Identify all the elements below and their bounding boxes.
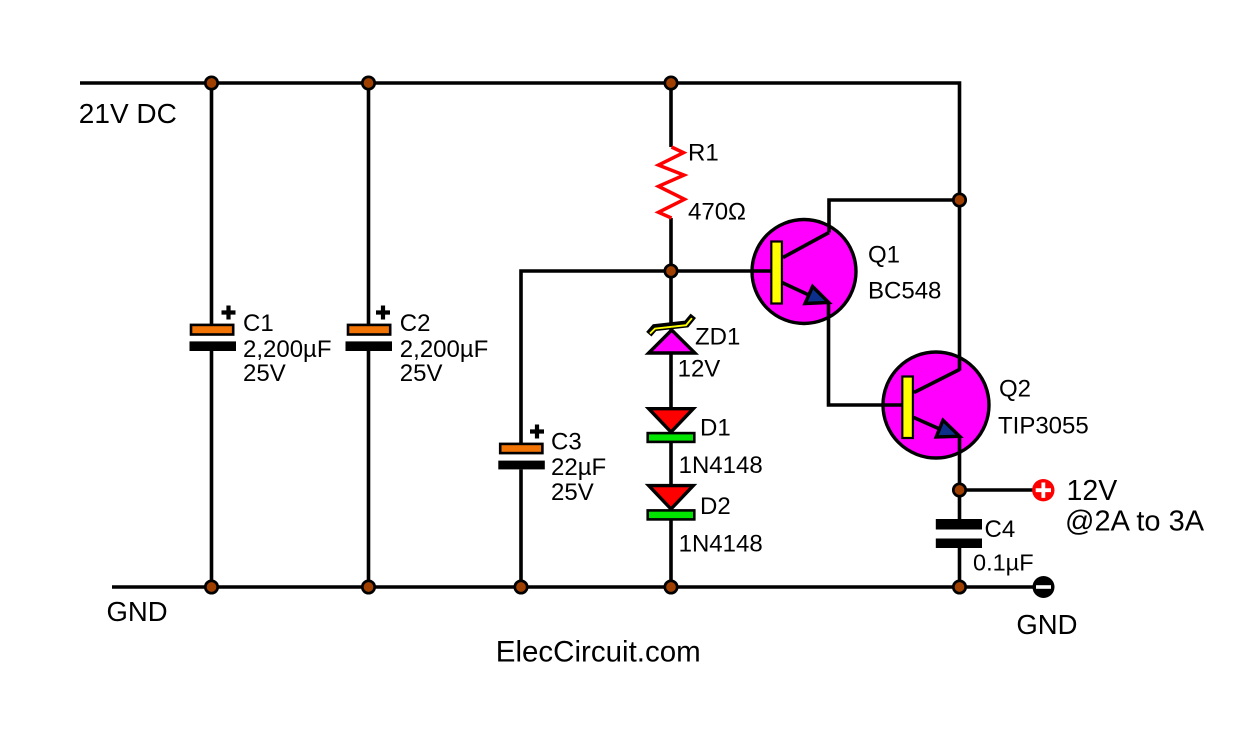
svg-text:470Ω: 470Ω xyxy=(688,199,746,226)
diode D2 xyxy=(648,486,763,558)
wire Q1 emitter to Q2 base xyxy=(829,303,904,406)
svg-text:1N4148: 1N4148 xyxy=(679,452,763,479)
wire R1 branch top xyxy=(669,83,673,147)
junction top rail C1 xyxy=(205,77,217,89)
svg-text:25V: 25V xyxy=(400,360,443,387)
wire R1 to zener xyxy=(669,218,673,330)
svg-text:D2: D2 xyxy=(700,493,731,520)
output terminal plus xyxy=(1032,479,1054,501)
svg-text:ElecCircuit.com: ElecCircuit.com xyxy=(496,636,701,669)
svg-text:21V DC: 21V DC xyxy=(79,98,177,129)
junction top rail R1 xyxy=(665,77,677,89)
transistor Q2 xyxy=(883,352,1089,458)
svg-text:BC548: BC548 xyxy=(868,278,941,305)
svg-text:ZD1: ZD1 xyxy=(695,324,740,351)
svg-text:C4: C4 xyxy=(985,516,1016,543)
junction top rail C2 xyxy=(362,77,374,89)
wire D1 to D2 xyxy=(669,442,673,486)
wire C2 branch lower xyxy=(367,351,371,587)
ground terminal minus xyxy=(1033,576,1055,598)
svg-text:D1: D1 xyxy=(700,415,731,442)
capacitor C2 xyxy=(346,306,489,388)
junction Q1 collector node xyxy=(953,194,965,206)
capacitor C3 xyxy=(498,425,606,507)
wire output node to terminal xyxy=(960,488,1034,492)
resistor R1 xyxy=(659,140,746,226)
zener diode ZD1 xyxy=(649,316,741,383)
svg-text:GND: GND xyxy=(107,596,168,627)
svg-text:0.1µF: 0.1µF xyxy=(973,549,1034,575)
wire C1 branch lower xyxy=(210,351,214,587)
capacitor C1 xyxy=(190,306,332,388)
capacitor C4 xyxy=(936,516,1034,575)
wire bottom rail xyxy=(112,585,1036,589)
svg-text:GND: GND xyxy=(1016,609,1077,640)
wire Q1 collector to node xyxy=(829,200,960,233)
junction ground D2 xyxy=(665,581,677,593)
wire Q1 base xyxy=(521,271,772,444)
wire D2 to ground rail xyxy=(669,520,673,588)
svg-text:25V: 25V xyxy=(551,479,594,506)
wire C3 branch lower xyxy=(519,470,523,588)
junction ground C4 xyxy=(953,581,965,593)
svg-text:@2A to 3A: @2A to 3A xyxy=(1065,505,1205,537)
wire top rail xyxy=(80,83,960,371)
svg-text:22µF: 22µF xyxy=(551,454,606,481)
diode D1 xyxy=(648,409,763,479)
wire ZD1 to D1 xyxy=(669,353,673,409)
svg-text:C3: C3 xyxy=(551,429,582,456)
wire C1 branch upper xyxy=(210,83,214,326)
svg-text:12V: 12V xyxy=(1067,475,1118,507)
svg-text:1N4148: 1N4148 xyxy=(679,531,763,558)
svg-text:TIP3055: TIP3055 xyxy=(998,412,1089,439)
svg-text:Q1: Q1 xyxy=(868,242,900,269)
junction ground C1 xyxy=(205,581,217,593)
svg-text:2,200µF: 2,200µF xyxy=(400,336,489,363)
svg-text:C2: C2 xyxy=(400,310,431,337)
junction R1 zener node xyxy=(665,265,677,277)
junction ground C3 xyxy=(515,581,527,593)
junction output node xyxy=(953,484,965,496)
wire C2 branch upper xyxy=(367,83,371,326)
svg-text:R1: R1 xyxy=(688,140,719,167)
svg-text:25V: 25V xyxy=(243,360,286,387)
wire C4 to ground rail xyxy=(958,548,962,587)
junction ground C2 xyxy=(362,581,374,593)
svg-text:Q2: Q2 xyxy=(999,376,1031,403)
transistor Q1 xyxy=(752,220,941,324)
svg-text:2,200µF: 2,200µF xyxy=(243,336,332,363)
wire Q2 emitter to output node xyxy=(958,436,962,519)
svg-text:C1: C1 xyxy=(243,310,274,337)
svg-text:12V: 12V xyxy=(678,356,721,383)
